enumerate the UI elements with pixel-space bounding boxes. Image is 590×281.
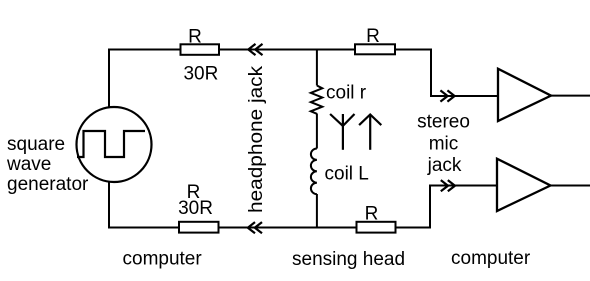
svg-text:headphone jack: headphone jack: [246, 65, 267, 213]
wire top rail from generator to right corner down to top amp input: [109, 50, 498, 97]
headphone jack chevrons top (pointing left): [248, 44, 262, 55]
wire top amp output: [551, 95, 590, 97]
svg-text:generator: generator: [7, 174, 89, 195]
svg-text:jack: jack: [427, 155, 462, 176]
wire bottom rail from generator to right corner up to bottom amp input: [109, 186, 497, 228]
resistor R4 box bottom-right: [357, 222, 396, 233]
op-amp U1 top amplifier: [498, 69, 551, 121]
svg-text:coil L: coil L: [325, 164, 369, 185]
wire bottom amp output: [551, 185, 590, 187]
svg-text:computer: computer: [451, 248, 531, 269]
stereo mic jack chevrons bottom (pointing right): [441, 180, 455, 191]
label stereo mic jack: [417, 112, 470, 176]
wire middle branch between coil r and coil L: [316, 114, 318, 149]
svg-text:30R: 30R: [178, 198, 213, 219]
svg-text:30R: 30R: [183, 64, 218, 85]
svg-text:square: square: [7, 134, 65, 155]
svg-text:coil r: coil r: [326, 83, 367, 104]
svg-text:sensing head: sensing head: [292, 249, 405, 270]
antenna symbol (sensing head pickup): [330, 114, 354, 150]
resistor R2 box top-right: [355, 44, 395, 54]
label square wave generator: [6, 134, 89, 195]
svg-text:R: R: [188, 26, 202, 47]
op-amp U2 bottom amplifier: [497, 159, 551, 211]
svg-text:R: R: [366, 26, 380, 47]
up arrow symbol (field direction): [359, 115, 381, 150]
wire left vertical from generator bottom to bottom rail: [108, 181, 110, 229]
resistor R1 box top-left: [181, 44, 220, 55]
headphone jack chevrons bottom (pointing left): [248, 222, 262, 233]
resistor R3 box bottom-left: [179, 222, 219, 233]
svg-text:mic: mic: [429, 134, 459, 155]
wire middle branch bottom: [316, 194, 318, 229]
stereo mic jack chevrons top (pointing right): [440, 90, 454, 101]
svg-text:computer: computer: [123, 249, 203, 270]
square wave symbol inside generator: [77, 131, 145, 157]
inductor coil L: [311, 149, 317, 195]
resistor coil r (zigzag): [311, 86, 323, 114]
generator circle: [77, 107, 152, 182]
svg-text:stereo: stereo: [417, 112, 470, 133]
svg-text:R: R: [365, 204, 379, 225]
wire middle branch top stub: [316, 50, 318, 86]
svg-text:wave: wave: [6, 154, 51, 175]
wire left vertical from top rail to generator top: [108, 49, 110, 109]
